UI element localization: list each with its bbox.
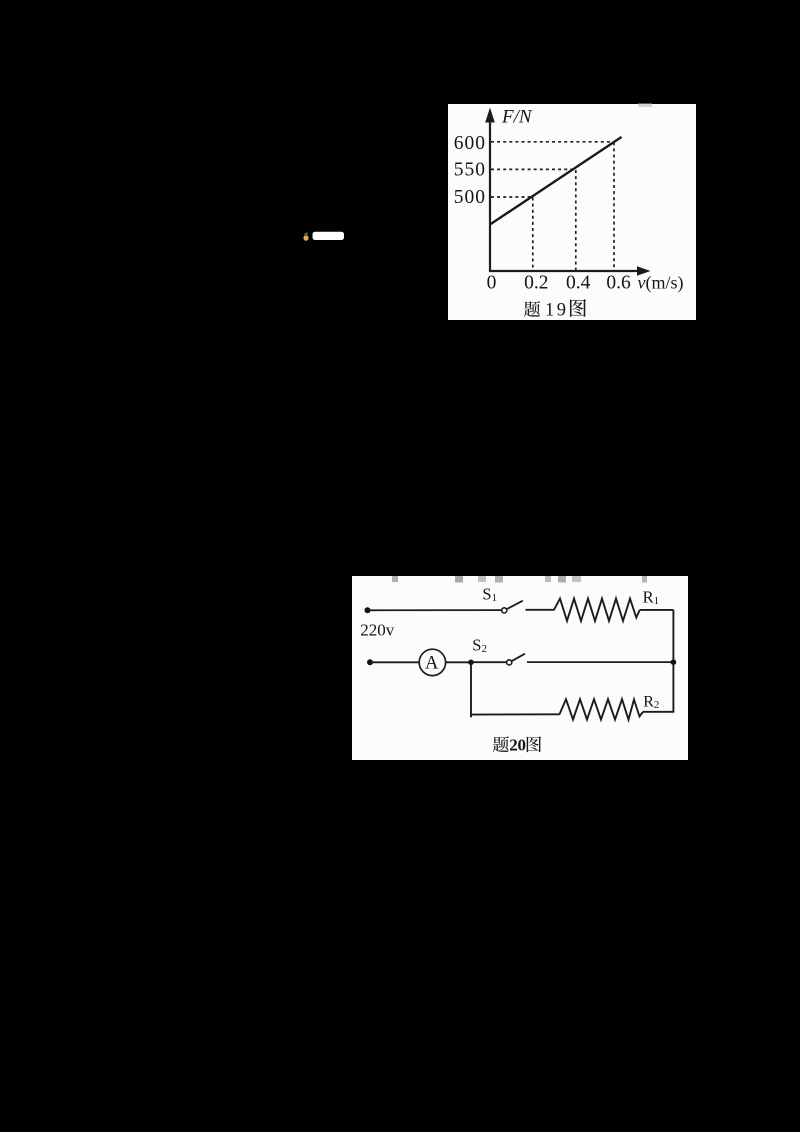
svg-text:19: 19	[545, 300, 569, 320]
svg-text:220v: 220v	[360, 621, 395, 640]
wire ammeter to junction	[446, 661, 471, 663]
dashed gridline 500	[491, 196, 533, 198]
dashed vline 0.6	[613, 142, 615, 270]
dashed vline 0.4	[575, 170, 577, 270]
svg-text:20: 20	[509, 736, 525, 755]
dashed vline 0.2	[532, 198, 534, 271]
caption ti20tu char tu	[527, 736, 541, 752]
wire top left	[368, 609, 502, 611]
small icon plant emoji	[303, 233, 308, 241]
svg-text:v(m/s): v(m/s)	[638, 273, 684, 294]
chart panel background	[448, 104, 696, 320]
resistor R2 zigzag	[560, 699, 644, 719]
wire junction to S2 pivot	[471, 661, 507, 663]
wire R1 to right	[640, 609, 674, 611]
left vertical wire to R2 branch	[470, 662, 472, 717]
ammeter A circle	[419, 649, 445, 675]
switch S2 pivot circle	[507, 660, 512, 665]
junction dot S2 branch	[468, 660, 474, 666]
switch S2 lever	[512, 654, 526, 662]
svg-text:F/N: F/N	[501, 107, 533, 128]
switch S1 pivot circle	[502, 608, 507, 613]
svg-text:0.4: 0.4	[566, 273, 591, 294]
wire to ammeter	[370, 661, 419, 663]
wire R2 branch left	[470, 713, 560, 715]
caption ti19tu char tu	[570, 299, 586, 317]
junction dot right	[671, 659, 677, 665]
svg-text:550: 550	[454, 160, 486, 181]
svg-text:0.2: 0.2	[524, 273, 548, 294]
y-axis with arrow	[485, 108, 495, 272]
resistor R1 zigzag	[554, 599, 640, 621]
data line F vs v	[490, 137, 622, 225]
right vertical wire	[672, 610, 674, 712]
caption ti19tu char ti	[524, 301, 540, 317]
svg-text:500: 500	[454, 187, 486, 208]
dashed gridline 600	[491, 141, 614, 143]
svg-text:A: A	[425, 653, 439, 673]
switch S1 lever	[507, 601, 523, 610]
wire R2 to right vertical	[643, 711, 674, 713]
wire S1 to R1	[526, 609, 555, 611]
circuit panel background	[352, 576, 688, 760]
smudge chart top right	[638, 104, 652, 108]
svg-text:0: 0	[487, 273, 497, 294]
x-axis with arrow	[489, 266, 651, 275]
terminal dot bottom left	[367, 659, 373, 665]
terminal dot top left	[365, 607, 371, 613]
smudges circuit top edge	[392, 576, 647, 583]
svg-text:0.6: 0.6	[606, 273, 631, 294]
dashed gridline 550	[491, 168, 576, 170]
white toolbar pill	[313, 232, 345, 240]
svg-text:600: 600	[454, 133, 486, 154]
caption ti20tu char ti	[493, 736, 509, 752]
wire S2 to right junction	[527, 661, 673, 663]
